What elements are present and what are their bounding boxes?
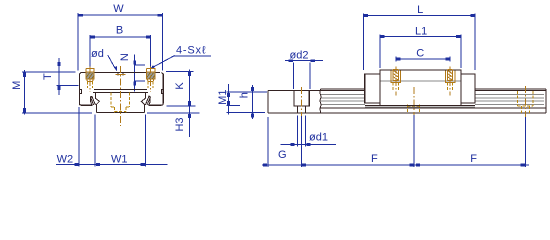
svg-text:G: G	[278, 149, 287, 161]
svg-text:W: W	[113, 3, 124, 15]
svg-text:4-Sxℓ: 4-Sxℓ	[176, 45, 206, 57]
svg-text:ød: ød	[91, 48, 104, 60]
svg-text:L1: L1	[415, 25, 427, 37]
svg-text:M1: M1	[217, 90, 229, 105]
svg-text:M: M	[11, 81, 23, 90]
svg-text:K: K	[174, 82, 186, 90]
svg-text:C: C	[416, 48, 424, 60]
svg-text:ød1: ød1	[309, 132, 328, 144]
svg-text:h: h	[238, 92, 250, 98]
svg-text:F: F	[470, 153, 477, 165]
svg-text:L: L	[417, 4, 423, 16]
svg-text:F: F	[371, 153, 378, 165]
svg-text:T: T	[42, 73, 54, 80]
svg-text:W1: W1	[111, 153, 128, 165]
svg-text:W2: W2	[57, 153, 74, 165]
svg-text:B: B	[116, 25, 123, 37]
svg-text:N: N	[119, 53, 131, 61]
svg-text:H3: H3	[174, 117, 186, 131]
